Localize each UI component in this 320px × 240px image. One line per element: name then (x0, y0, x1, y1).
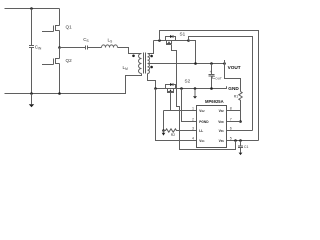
wire pin6 row to inner rail (227, 130, 253, 132)
wire bottom rail to transformer return (5, 74, 142, 94)
node secondary top polarity dot (150, 55, 153, 58)
wire secondary top to S1 row (148, 41, 154, 54)
transistor Q2 (42, 58, 72, 65)
wire pin5 row to outer rail (227, 140, 259, 142)
wire Q2 drain and source (59, 48, 61, 94)
rectifier S2 (166, 79, 191, 93)
svg-text:GND: GND (228, 86, 239, 91)
wire CIN branch (31, 9, 33, 94)
wire midpoint to Cs (60, 47, 86, 49)
wire R1 to pin8 pin7 (240, 103, 242, 122)
node secondary ground tap (194, 87, 197, 90)
inductor Ls (102, 38, 118, 48)
svg-text:R1: R1 (234, 94, 238, 98)
svg-text:Q1: Q1 (66, 25, 73, 30)
svg-text:+: + (210, 70, 212, 74)
wire VOUT row center tap (148, 63, 225, 65)
node R2 left (162, 129, 165, 132)
wire pin7 row (227, 121, 241, 123)
capacitor Cs (83, 37, 88, 50)
svg-text:3: 3 (192, 127, 194, 131)
transformer secondary top winding (148, 54, 150, 64)
ground R2 (162, 131, 166, 136)
svg-text:6: 6 (230, 127, 232, 131)
svg-text:5: 5 (230, 137, 232, 141)
node S2 left (154, 87, 157, 90)
wire VOUT to R1 (225, 64, 241, 92)
terminal GND (227, 86, 240, 91)
IC U1 MP6925A synchronous rectifier controller (197, 99, 227, 147)
wire secondary bottom to S2 row (148, 74, 156, 89)
node C1 top (239, 139, 242, 142)
wire Ls to transformer primary (118, 48, 142, 54)
ground C1 (239, 153, 243, 156)
capacitor COUT (209, 64, 222, 89)
capacitor CIN (29, 45, 42, 51)
resistor R1 (234, 92, 242, 103)
wire S1 row (154, 40, 189, 42)
svg-text:LL: LL (199, 129, 203, 133)
wire outer sense rail (160, 31, 259, 141)
rectifier S1 (166, 31, 186, 44)
node input rail junction (30, 7, 33, 10)
wire S2 gate to pin1 (171, 93, 197, 111)
capacitor C1 (238, 141, 248, 153)
svg-text:Q2: Q2 (66, 58, 73, 63)
wire PGND vertical to pin2 (182, 89, 197, 122)
svg-text:7: 7 (230, 118, 232, 122)
node COUT top (210, 62, 213, 65)
node secondary bottom polarity dot (150, 66, 153, 69)
svg-text:R2: R2 (171, 133, 175, 137)
ground secondary (193, 89, 197, 99)
wire Q1 drain (59, 9, 61, 26)
node primary polarity dot (132, 55, 135, 58)
node Q2 bottom (58, 92, 61, 95)
transformer core (144, 53, 146, 74)
wire pin1 left extension to R2 (164, 111, 171, 131)
resistor R2 (164, 129, 179, 137)
transistor Q1 (42, 25, 72, 32)
svg-text:S2: S2 (185, 79, 191, 84)
wire S1 gate route and VSS under IC (172, 45, 236, 150)
node S1 left (158, 39, 161, 42)
terminal VOUT (225, 60, 241, 70)
wire top input rail (5, 8, 60, 10)
node CIN bottom (30, 92, 33, 95)
node half-bridge midpoint (58, 46, 61, 49)
wire S2 drain rail to pin4 (156, 89, 197, 141)
wire S2 GND row (156, 88, 227, 90)
svg-text:COUT: COUT (212, 75, 222, 81)
wire Cs to Ls (88, 47, 102, 49)
svg-text:PGND: PGND (199, 120, 209, 124)
svg-text:1: 1 (192, 107, 194, 111)
svg-text:VOUT: VOUT (228, 65, 241, 70)
node PGND tap (180, 87, 183, 90)
node pin7 junction (239, 120, 242, 123)
node VOUT terminal (223, 62, 226, 65)
wire S1 to VOUT node (189, 41, 196, 64)
node pin5 riser (234, 139, 237, 142)
svg-text:C1: C1 (244, 145, 248, 149)
transformer secondary bottom winding (148, 64, 150, 74)
svg-text:4: 4 (192, 137, 194, 141)
node COUT bottom (210, 87, 213, 90)
wire Q1 source to node (59, 31, 61, 48)
wire R2 to pin3 (178, 130, 197, 132)
svg-text:MP6925A: MP6925A (205, 99, 224, 104)
node S1 right (187, 39, 190, 42)
ground primary (29, 94, 34, 108)
svg-text:8: 8 (230, 107, 232, 111)
svg-text:2: 2 (192, 118, 194, 122)
wire pin8 row (227, 110, 241, 112)
svg-text:S1: S1 (180, 31, 186, 36)
wire inner sense rail (189, 37, 253, 131)
transformer T1 primary winding (123, 54, 142, 74)
node S1 drop on VOUT row (194, 62, 197, 65)
